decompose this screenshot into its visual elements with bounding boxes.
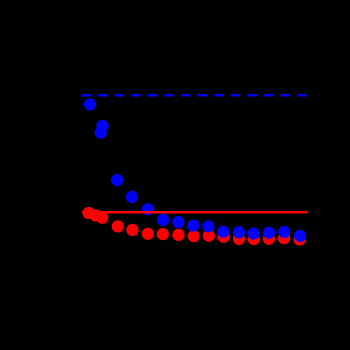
red dot 5 — [126, 224, 138, 236]
blue dot 14 — [263, 227, 275, 239]
red dot 13 — [248, 233, 260, 245]
blue dot 7 — [157, 214, 169, 226]
blue dot 5 — [126, 191, 138, 203]
red dot 9 — [188, 230, 200, 242]
blue dot 13 — [248, 228, 260, 240]
red dot 4 — [112, 220, 124, 232]
blue dot 1 — [84, 98, 96, 110]
red dot 16 — [294, 234, 306, 246]
blue dashed reference line — [82, 94, 308, 97]
red dot 14 — [263, 233, 275, 245]
red dot 7 — [157, 228, 169, 240]
red dot 11 — [218, 231, 230, 243]
blue dot 15 — [278, 226, 290, 238]
blue dot 10 — [202, 220, 214, 232]
red dot 1 — [83, 207, 95, 219]
blue dot 6 — [142, 203, 154, 215]
red dot 2 — [89, 209, 101, 221]
blue dot 4 — [111, 174, 123, 186]
blue dot 9 — [187, 220, 199, 232]
red dot 3 — [96, 212, 108, 224]
red dot 8 — [172, 229, 184, 241]
red data series markers — [83, 207, 306, 246]
red dot 12 — [233, 233, 245, 245]
blue dot 12 — [233, 226, 245, 238]
red dot 15 — [278, 232, 290, 244]
blue dot 16 — [294, 230, 306, 242]
blue dot 8 — [172, 216, 184, 228]
red dot 6 — [142, 228, 154, 240]
blue data series markers — [84, 98, 306, 242]
blue dot 3 — [95, 127, 107, 139]
blue dot 2 — [96, 120, 108, 132]
red dot 10 — [203, 230, 215, 242]
red solid reference line — [82, 211, 308, 214]
blue dot 11 — [217, 226, 229, 238]
